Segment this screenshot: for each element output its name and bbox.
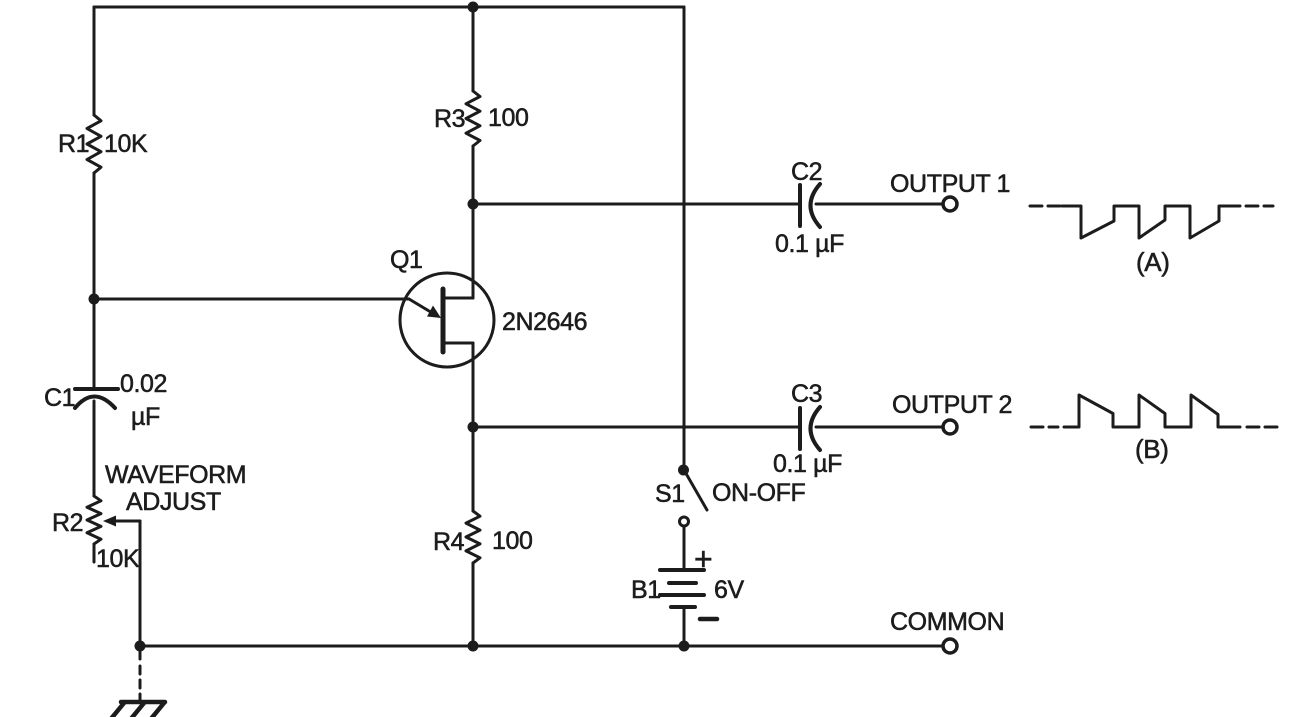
svg-text:100: 100 <box>488 104 529 132</box>
value 2N2646 <box>502 308 587 336</box>
svg-text:OUTPUT 1: OUTPUT 1 <box>890 170 1010 198</box>
resistor R1 <box>87 115 101 173</box>
label R1 <box>58 130 89 158</box>
svg-text:WAVEFORM: WAVEFORM <box>105 461 246 489</box>
value 0.1 µF (C2) <box>775 230 844 258</box>
wire top rail to R3 <box>472 7 475 91</box>
wire output1 node down to Q1 base2 <box>472 204 475 298</box>
wire output2 node to C3 <box>473 426 800 429</box>
label B1 <box>631 576 661 604</box>
label S1 <box>655 480 685 508</box>
wire switch feed (top rail down to S1) <box>683 7 686 468</box>
wire R4 to bottom rail <box>472 563 475 646</box>
wire R2 wiper to bottom rail <box>139 521 142 646</box>
label C3 <box>791 380 822 408</box>
transistor Q1 (2N2646 UJT) <box>400 273 494 367</box>
svg-text:ADJUST: ADJUST <box>126 488 221 516</box>
svg-text:COMMON: COMMON <box>890 608 1004 636</box>
wire S1 to battery <box>683 526 686 568</box>
svg-text:µF: µF <box>131 403 160 431</box>
terminal OUTPUT 1 <box>943 197 957 211</box>
wire C2 to output1 terminal <box>816 203 943 206</box>
battery B1 <box>660 570 704 607</box>
svg-text:R1: R1 <box>58 130 89 158</box>
svg-text:ON-OFF: ON-OFF <box>712 479 806 507</box>
svg-text:10K: 10K <box>96 545 140 573</box>
value 0.02 µF (C1) <box>120 370 167 431</box>
value 6V <box>714 576 745 604</box>
value 0.1 µF (C3) <box>773 450 842 478</box>
wire left rail upper (top rail to R1) <box>93 7 96 115</box>
svg-text:OUTPUT 2: OUTPUT 2 <box>892 391 1012 419</box>
terminal OUTPUT 2 <box>943 420 957 434</box>
resistor R4 <box>466 511 480 563</box>
svg-text:R4: R4 <box>433 528 465 556</box>
label OUTPUT 2 <box>892 391 1012 419</box>
label R3 <box>434 105 465 133</box>
svg-text:(B): (B) <box>1135 434 1168 464</box>
node output1 junction <box>468 199 479 210</box>
wire left rail (R1 to emitter node) <box>93 173 96 299</box>
wire top supply rail <box>94 6 684 9</box>
wire R3 to output1 node <box>472 146 475 204</box>
svg-text:0.1 µF: 0.1 µF <box>775 230 844 258</box>
svg-text:R2: R2 <box>52 509 83 537</box>
label minus <box>700 617 717 622</box>
wire C1 to R2 <box>93 401 96 496</box>
wire dashed to ground <box>139 646 142 702</box>
waveform B trace <box>1031 395 1278 427</box>
capacitor C2 <box>800 184 820 227</box>
node top rail / R3 junction <box>468 2 479 13</box>
wire battery to bottom rail <box>683 609 686 646</box>
switch S1 <box>678 465 707 527</box>
label (B) <box>1135 434 1168 464</box>
svg-text:10K: 10K <box>104 130 148 158</box>
svg-text:C3: C3 <box>791 380 822 408</box>
label C1 <box>44 384 75 412</box>
wire output1 node to C2 <box>473 203 800 206</box>
svg-text:Q1: Q1 <box>390 246 423 274</box>
label OUTPUT 1 <box>890 170 1010 198</box>
node emitter junction <box>89 294 100 305</box>
svg-text:(A): (A) <box>1136 247 1169 277</box>
wire left rail (emitter node to C1) <box>93 299 96 388</box>
wire Q1 base1 down to output2 node <box>472 343 475 427</box>
capacitor C3 <box>800 407 820 450</box>
terminal COMMON <box>943 639 957 653</box>
svg-text:6V: 6V <box>714 576 745 604</box>
capacitor C1 <box>75 389 118 408</box>
svg-text:C1: C1 <box>44 384 75 412</box>
wiper arrow R2 <box>103 516 140 527</box>
label R4 <box>433 528 465 556</box>
svg-text:B1: B1 <box>631 576 661 604</box>
value 10K (R2) <box>96 545 140 573</box>
svg-text:S1: S1 <box>655 480 685 508</box>
node battery bottom junction <box>679 641 690 652</box>
resistor R3 <box>466 91 480 146</box>
value 100 (R3) <box>488 104 529 132</box>
wire output2 node to R4 <box>472 427 475 511</box>
node bottom-left junction <box>135 641 146 652</box>
svg-text:R3: R3 <box>434 105 465 133</box>
svg-text:0.02: 0.02 <box>120 370 167 398</box>
waveform A trace <box>1030 206 1273 238</box>
svg-text:100: 100 <box>492 527 533 555</box>
ground (chassis) symbol <box>110 702 165 717</box>
label ON-OFF <box>712 479 806 507</box>
svg-text:2N2646: 2N2646 <box>502 308 587 336</box>
wire emitter node to Q1 <box>94 298 409 301</box>
label Q1 <box>390 246 423 274</box>
svg-text:0.1 µF: 0.1 µF <box>773 450 842 478</box>
wire bottom common rail <box>140 645 943 648</box>
potentiometer R2 <box>87 496 101 562</box>
svg-text:C2: C2 <box>791 158 822 186</box>
node output2 junction <box>468 422 479 433</box>
label (A) <box>1136 247 1169 277</box>
label WAVEFORM ADJUST <box>105 461 246 516</box>
svg-text:+: + <box>694 541 712 577</box>
value 10K (R1) <box>104 130 148 158</box>
label C2 <box>791 158 822 186</box>
wire C3 to output2 terminal <box>816 426 943 429</box>
label COMMON <box>890 608 1004 636</box>
label R2 <box>52 509 83 537</box>
node R4 bottom junction <box>468 641 479 652</box>
value 100 (R4) <box>492 527 533 555</box>
label plus <box>694 541 712 577</box>
